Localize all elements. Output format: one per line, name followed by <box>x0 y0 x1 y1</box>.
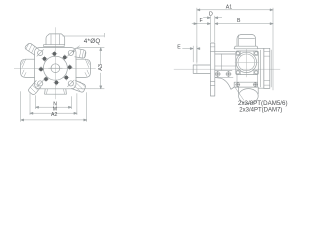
bottom flange bolt left <box>236 82 240 86</box>
mounting plate (rounded square) <box>35 48 77 89</box>
corner hole top-right <box>68 50 75 57</box>
side boss horizontal centerline <box>235 61 259 63</box>
svg-text:A3: A3 <box>98 64 104 71</box>
corner pad top-right <box>254 51 258 56</box>
body bolt hole left <box>215 71 221 77</box>
side boss face plate <box>236 51 258 75</box>
dimension E <box>183 46 200 62</box>
tab NE corner <box>75 48 86 58</box>
vertical centerline <box>54 28 56 100</box>
dimension F <box>192 23 210 25</box>
svg-text:E: E <box>177 44 181 50</box>
bottom port boss <box>45 89 67 94</box>
tab SW corner <box>29 81 41 95</box>
corner pad bottom-right <box>254 70 258 75</box>
svg-text:B: B <box>237 18 241 24</box>
bonnet neck edge <box>221 54 223 70</box>
big flange circle <box>43 56 67 80</box>
tab SE corner <box>72 81 86 93</box>
dimension B <box>215 23 273 25</box>
horizontal centerline right view <box>174 68 280 70</box>
right flange plate <box>264 48 271 88</box>
bottom port tube + opening ellipse <box>239 87 259 103</box>
body neck top lines <box>215 52 235 54</box>
side boss circle inner <box>238 54 255 71</box>
leader to port text <box>235 87 244 100</box>
left pipe stub <box>193 65 210 73</box>
tab NW corner <box>25 43 39 55</box>
horizontal centerline <box>14 67 95 69</box>
lobe right port boss <box>76 59 90 77</box>
top pad (mounting pad + nut, side view) <box>234 34 258 48</box>
bottom port flange bar <box>234 75 257 88</box>
svg-text:F: F <box>200 18 203 24</box>
stem washer flange <box>44 45 65 47</box>
corner pad top-left <box>236 51 240 56</box>
left flange plate <box>210 43 214 96</box>
dimension M <box>30 94 77 115</box>
bore horizontal line <box>49 67 63 69</box>
corner pad bottom-left <box>236 70 240 75</box>
svg-text:A1: A1 <box>226 4 232 10</box>
corner hole top-left <box>37 50 44 57</box>
corner hole bottom-left <box>37 80 44 87</box>
dimension D <box>203 16 221 42</box>
body bolt hole right <box>226 71 232 77</box>
svg-text:2x3/8PT(DAM5/6): 2x3/8PT(DAM5/6) <box>238 100 288 107</box>
svg-text:4*ØQ: 4*ØQ <box>84 38 101 45</box>
vertical centerline through side boss <box>245 49 247 77</box>
body mid line <box>215 65 236 67</box>
corner hole bottom-right <box>68 80 75 87</box>
center bore circle <box>51 64 60 73</box>
svg-text:A2: A2 <box>51 112 57 118</box>
stem hex nut (top) <box>46 34 65 45</box>
right body end face <box>258 48 264 88</box>
svg-text:2x3/4PT(DAM7): 2x3/4PT(DAM7) <box>239 107 282 113</box>
lobe left port boss <box>21 59 35 77</box>
body lower-left ledge <box>215 70 233 77</box>
8 stud holes on bolt circle <box>38 51 72 85</box>
bottom flange bolt right <box>253 82 257 86</box>
dimension A2 <box>21 92 87 122</box>
dimension A3 <box>78 48 105 89</box>
svg-text:D: D <box>209 12 213 18</box>
side boss circle outer <box>236 52 256 72</box>
leader 4*OQ <box>72 46 79 51</box>
dimension A1 <box>197 8 273 90</box>
dimension N <box>36 96 72 109</box>
body bottom-left outline <box>215 78 234 90</box>
right flange bottom connect <box>258 87 264 89</box>
